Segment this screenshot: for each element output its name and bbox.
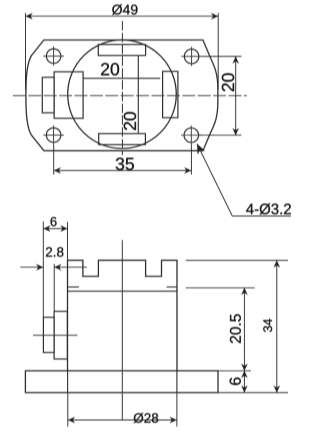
mounting hole top-left [46,49,61,64]
dimension 20.5 [186,287,255,289]
mounting hole bottom-left [46,128,61,143]
left tab (top view) [54,72,83,119]
mounting hole bottom-right [184,128,199,143]
vertical centerline (front view) [121,240,123,420]
dimension 34 [186,259,288,261]
left tab plate (front view) [54,311,67,359]
dimension 6 (base thickness) [243,371,245,393]
bottom tab (top view) [99,134,146,145]
dimension 35 [53,145,55,175]
dimension O49 [25,13,27,90]
leader 4-O3.2 [197,144,232,216]
left tick line (front view) [68,286,79,288]
top tab (top view) [98,45,145,56]
inner horizontal line [83,77,160,79]
dimension 6 (top left) [42,222,44,318]
circle body O28 (top view) [68,40,177,149]
right tick line (front view) [167,286,177,288]
vertical centerline (top view) [121,21,123,155]
dimension O28 [67,393,69,427]
body edge extensions through base [67,371,69,393]
horizontal centerline (top view) [13,95,247,97]
base flange plate (front view) [25,371,218,393]
dimension 2.8 [20,266,43,268]
left step plate (front view) [43,317,54,352]
left step tab (top view) [42,77,54,113]
dimension 20 (inner horizontal) [101,63,119,75]
body band line (front view) [68,290,178,292]
right tab (top view) [163,71,178,117]
dimension 20 (inner vertical) [124,112,136,130]
inner vertical line [137,56,139,134]
dimension 20 (hole spacing vertical) [202,55,242,57]
horizontal centerline left plates [33,334,78,336]
mounting hole top-right [184,49,199,64]
flange outline (top view) [26,40,218,151]
body outline (front view) [68,260,178,370]
